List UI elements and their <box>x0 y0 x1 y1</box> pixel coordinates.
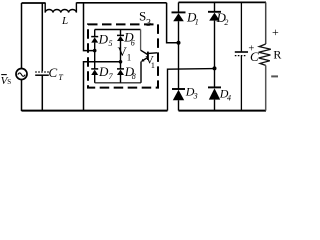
diode D8 <box>117 68 124 70</box>
svg-text:8: 8 <box>132 72 136 81</box>
svg-text:4: 4 <box>227 94 231 103</box>
transistor V1 <box>140 30 142 51</box>
output bridge right column D2/D4 <box>214 2 216 11</box>
capacitor C <box>235 51 248 53</box>
wire jog down to bridge AC1 <box>167 3 179 43</box>
svg-text:1: 1 <box>151 60 155 70</box>
svg-text:3: 3 <box>193 91 198 100</box>
svg-text:C: C <box>250 49 259 64</box>
svg-text:6: 6 <box>131 38 135 47</box>
wire CT branch lower <box>41 76 43 111</box>
source Vs circle <box>16 69 27 80</box>
wire R branch lower <box>265 65 267 110</box>
svg-text:S: S <box>7 78 11 86</box>
label Vs <box>1 74 7 76</box>
svg-text:D: D <box>98 31 109 46</box>
resistor R <box>259 44 271 65</box>
svg-text:1: 1 <box>127 52 132 62</box>
bridge top rail <box>95 29 141 31</box>
svg-text:C: C <box>49 65 58 80</box>
diode D4 <box>208 86 221 88</box>
wire AC2 to output bridge <box>168 69 215 111</box>
diode D2 <box>208 11 221 13</box>
svg-text:1: 1 <box>195 18 199 27</box>
dashed box S3 <box>88 24 158 87</box>
wire top-left rail <box>22 2 46 4</box>
diode D3 <box>172 88 185 90</box>
inductor L <box>45 3 76 13</box>
svg-text:D: D <box>98 64 109 79</box>
wire S3 AC2 tap <box>84 62 121 111</box>
node AC2 dot <box>119 60 123 64</box>
diode D5 <box>94 30 96 38</box>
svg-text:2: 2 <box>224 18 228 27</box>
wire C branch lower <box>240 56 242 111</box>
wire Vs branch lower <box>21 80 23 112</box>
diode D6 <box>120 30 122 36</box>
svg-text:3: 3 <box>146 18 151 29</box>
wire Vs branch upper <box>21 3 23 68</box>
capacitor CT <box>35 71 49 73</box>
diode D7 <box>91 68 98 70</box>
svg-text:T: T <box>58 73 63 82</box>
label - output <box>271 75 278 77</box>
wire R branch upper <box>265 2 267 44</box>
wire top mid rail <box>76 2 166 4</box>
node AC1 dot <box>93 49 97 53</box>
svg-text:5: 5 <box>109 39 113 48</box>
wire CT branch upper <box>41 3 43 71</box>
svg-text:L: L <box>61 15 68 27</box>
wire top-right rail <box>179 1 267 3</box>
wire bottom-right rail <box>179 110 267 112</box>
bridge bottom rail <box>95 82 141 84</box>
svg-text:7: 7 <box>109 72 114 81</box>
wire S3 AC1 tap <box>84 3 95 51</box>
wire C branch upper <box>240 2 242 51</box>
node AC2 output dot <box>213 66 217 70</box>
wire bottom-left rail <box>22 110 168 112</box>
diode D1 <box>172 11 186 13</box>
svg-text:R: R <box>273 48 281 62</box>
node AC1 output dot <box>177 41 181 45</box>
output bridge left column D1/D3 <box>178 2 180 12</box>
svg-text:+: + <box>272 25 279 39</box>
